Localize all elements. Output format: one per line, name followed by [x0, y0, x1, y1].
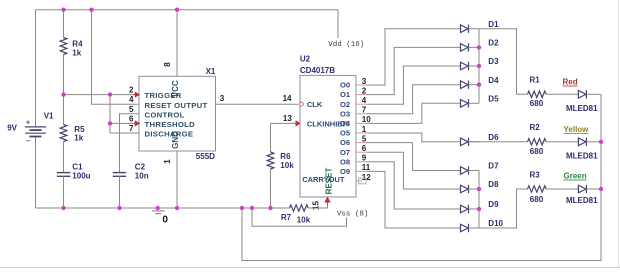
wire O5 to diode D6	[367, 133, 461, 142]
red input arrow pin13	[295, 121, 300, 126]
svg-text:D10: D10	[488, 219, 503, 228]
wire CLKINHIBIT pin13 row	[271, 122, 296, 124]
wire LED yellow to right bus	[587, 141, 601, 143]
ground symbol node 0	[152, 211, 165, 214]
svg-text:O4: O4	[340, 119, 351, 128]
pin 2 stub (O1)	[356, 94, 367, 96]
wire D10 cathode to bus	[469, 227, 480, 229]
svg-text:O3: O3	[340, 109, 350, 118]
svg-text:C2: C2	[135, 162, 146, 171]
svg-text:7: 7	[362, 106, 367, 115]
wire 555 pin7 row	[110, 132, 139, 134]
pin 11 stub (O9)	[356, 170, 367, 172]
svg-text:7: 7	[129, 124, 134, 133]
wire right return bus	[242, 94, 601, 260]
svg-text:D8: D8	[488, 180, 499, 189]
svg-text:MLED81: MLED81	[566, 196, 598, 205]
svg-text:2: 2	[129, 86, 134, 95]
wire 555 OUT pin3 to CD4017 CLK pin14	[216, 103, 299, 105]
svg-text:D2: D2	[488, 39, 499, 48]
svg-text:C1: C1	[72, 162, 83, 171]
wire O4 to diode D5	[367, 103, 461, 123]
svg-text:4: 4	[129, 95, 134, 104]
CLK pin open circle	[300, 102, 304, 106]
svg-text:O5: O5	[340, 129, 350, 138]
svg-text:Yellow: Yellow	[564, 125, 590, 134]
op 555 IC X1 box	[139, 76, 216, 151]
diode D10	[461, 224, 469, 232]
wire O9 to diode D10	[367, 171, 461, 228]
svg-text:680: 680	[530, 99, 544, 108]
svg-text:15: 15	[312, 201, 321, 210]
wire 555 VCC pin8 from rail	[176, 10, 178, 77]
diode D5	[461, 100, 469, 108]
resistor R7	[290, 205, 309, 211]
wire D9 cathode to bus	[469, 208, 480, 210]
pin 15 riser from ground rail	[327, 204, 329, 208]
wire R1 to LED	[546, 93, 578, 95]
wire ground rail	[36, 207, 290, 209]
svg-text:11: 11	[362, 163, 371, 172]
svg-text:9: 9	[362, 154, 367, 163]
wire Vdd drop to CD4017	[337, 10, 339, 38]
svg-text:6: 6	[362, 144, 367, 153]
wire O6 to diode D7	[367, 143, 461, 171]
battery V1	[25, 10, 46, 208]
wire D4 cathode to bus	[469, 84, 480, 86]
svg-text:R2: R2	[530, 123, 541, 132]
svg-text:Green: Green	[564, 172, 587, 181]
IC U2 CD4017B box	[300, 75, 356, 197]
wire D7 cathode to bus	[469, 170, 480, 172]
svg-text:5: 5	[362, 134, 367, 143]
svg-text:10k: 10k	[280, 161, 294, 170]
svg-text:8: 8	[163, 62, 172, 67]
svg-text:100u: 100u	[72, 172, 90, 181]
wire trigger/threshold link verticale	[109, 95, 111, 133]
red input arrow pin2	[134, 92, 140, 97]
junction dot yellow return	[599, 140, 603, 144]
svg-text:2: 2	[362, 86, 367, 95]
pin 7 stub (O3)	[356, 113, 367, 115]
junction dot R4/R5/pin2	[61, 92, 65, 96]
resistor R4	[60, 10, 67, 95]
svg-text:5: 5	[129, 105, 134, 114]
svg-text:555D: 555D	[196, 152, 215, 161]
pin 12 stub (CARRYOUT)	[356, 180, 362, 182]
svg-text:R3: R3	[530, 170, 541, 179]
resistor R5	[60, 95, 67, 173]
diode D2	[461, 44, 469, 52]
svg-text:1k: 1k	[74, 133, 83, 142]
pin 1 stub (O5)	[356, 132, 367, 134]
svg-text:Vss (8): Vss (8)	[337, 211, 369, 219]
svg-text:R6: R6	[280, 152, 291, 161]
svg-text:D1: D1	[488, 20, 499, 29]
svg-text:RESET: RESET	[325, 168, 334, 195]
svg-text:13: 13	[283, 114, 292, 123]
resistor R6	[267, 123, 274, 208]
wire top power rail	[36, 9, 339, 11]
window bottom border	[0, 267, 620, 269]
LED MLED81 red	[578, 91, 586, 99]
svg-text:O6: O6	[340, 138, 350, 147]
resistor R2	[528, 139, 547, 145]
wire bus D1 to R1	[479, 29, 528, 95]
wire 555 GND pin1 to ground rail	[176, 151, 178, 208]
diode D6	[461, 138, 469, 146]
svg-text:14: 14	[283, 94, 292, 103]
svg-text:O8: O8	[340, 157, 350, 166]
pin 9 stub (O8)	[356, 161, 367, 163]
wire 555 pin5 row to C2	[120, 114, 140, 172]
svg-text:D9: D9	[488, 200, 499, 209]
wire D8 cathode to bus	[469, 188, 480, 190]
capacitor C1	[57, 173, 71, 208]
diode D1	[461, 25, 469, 33]
svg-text:R4: R4	[72, 40, 83, 49]
wire bottom cathode bus D7-D10	[478, 171, 480, 229]
svg-text:VCC: VCC	[171, 80, 180, 97]
svg-text:CARRYOUT: CARRYOUT	[302, 175, 345, 184]
svg-text:MLED81: MLED81	[566, 151, 598, 160]
junction dot trigger link top	[108, 92, 112, 96]
wire R2 to LED	[546, 141, 578, 143]
svg-text:DISCHARGE: DISCHARGE	[145, 130, 194, 139]
pin 3 stub (O0)	[356, 84, 367, 86]
svg-text:9V: 9V	[7, 124, 17, 133]
diode D9	[461, 205, 469, 213]
svg-text:O2: O2	[340, 100, 350, 109]
svg-text:X1: X1	[206, 67, 216, 76]
wire D6 row to R2	[469, 141, 528, 143]
svg-text:6: 6	[129, 114, 134, 123]
pin 5 stub (O6)	[356, 142, 367, 144]
capacitor C2	[113, 173, 127, 208]
svg-text:O0: O0	[340, 81, 350, 90]
pin 10 stub (O4)	[356, 122, 367, 124]
wire LED red to right bus	[587, 93, 601, 95]
svg-text:D5: D5	[488, 94, 499, 103]
svg-text:R7: R7	[281, 213, 292, 222]
wire D3 cathode to bus	[469, 65, 480, 67]
svg-text:RESET OUTPUT: RESET OUTPUT	[145, 101, 208, 110]
pin 6 stub (O7)	[356, 151, 367, 153]
wire O8 to diode D9	[367, 162, 461, 209]
CARRYOUT open terminal square	[359, 178, 367, 184]
wire O3 to diode D4	[367, 85, 461, 114]
wire R3 to LED	[546, 188, 578, 190]
svg-text:THRESHOLD: THRESHOLD	[145, 120, 196, 129]
wire top cathode bus D1-D5	[478, 29, 480, 104]
svg-text:D6: D6	[488, 133, 499, 142]
diode D7	[461, 167, 469, 175]
junction dots bottom bus	[477, 187, 481, 191]
wire 555 pin6 row	[110, 122, 139, 124]
wire R7 to pin15	[308, 207, 327, 209]
svg-text:680: 680	[530, 195, 544, 204]
svg-text:Red: Red	[563, 78, 578, 87]
svg-text:D7: D7	[488, 162, 499, 171]
svg-text:3: 3	[362, 77, 367, 86]
svg-text:1: 1	[163, 159, 172, 164]
junction dot pin6 branch	[108, 121, 112, 125]
wire O0 to diode D1	[367, 29, 461, 85]
diode D4	[461, 81, 469, 89]
wire bus D10 to R3	[479, 189, 528, 228]
resistor R3	[528, 186, 547, 192]
diode D3	[461, 62, 469, 70]
red input arrow pin15	[325, 197, 330, 204]
wire D1 cathode to bus	[469, 28, 480, 30]
svg-text:CD4017B: CD4017B	[300, 66, 335, 75]
wire Vss branch	[252, 208, 347, 226]
svg-text:CONTROL: CONTROL	[145, 110, 185, 119]
junction dots ground rail	[61, 206, 65, 210]
svg-text:Vdd (16): Vdd (16)	[328, 41, 364, 49]
svg-text:12: 12	[362, 173, 371, 182]
svg-text:10n: 10n	[135, 172, 149, 181]
svg-text:680: 680	[530, 147, 544, 156]
svg-text:10k: 10k	[297, 216, 311, 225]
wire LED green to right bus	[587, 188, 601, 190]
svg-text:GND: GND	[171, 131, 180, 149]
LED MLED81 green	[578, 185, 586, 193]
diode D8	[461, 185, 469, 193]
wire D2 cathode to bus	[469, 46, 480, 48]
junction dots top bus	[477, 45, 481, 49]
wire D6 cathode to bus	[469, 141, 480, 143]
junction dot green return	[599, 187, 603, 191]
svg-text:D4: D4	[488, 76, 499, 85]
svg-text:V1: V1	[44, 112, 54, 121]
svg-text:U2: U2	[300, 54, 311, 63]
svg-text:CLK: CLK	[307, 100, 323, 109]
svg-text:R1: R1	[530, 76, 541, 85]
svg-text:O1: O1	[340, 90, 350, 99]
wire O7 to diode D8	[367, 152, 461, 189]
svg-text:O9: O9	[340, 167, 350, 176]
svg-text:D3: D3	[488, 57, 499, 66]
wire O2 to diode D3	[367, 66, 461, 104]
wire O1 to diode D2	[367, 47, 461, 94]
svg-text:O7: O7	[340, 148, 350, 157]
svg-text:10: 10	[362, 115, 371, 124]
pin 4 stub (O2)	[356, 103, 367, 105]
junction dots top rail	[61, 8, 65, 12]
svg-text:4: 4	[362, 96, 367, 105]
svg-text:0: 0	[162, 215, 168, 226]
resistor R1	[528, 91, 547, 97]
svg-text:3: 3	[220, 94, 225, 103]
svg-text:MLED81: MLED81	[566, 104, 598, 113]
svg-text:1k: 1k	[72, 49, 81, 58]
svg-text:1: 1	[362, 125, 367, 134]
red input arrow pin6	[134, 121, 140, 126]
LED MLED81 yellow	[578, 138, 586, 146]
wire pin4 riser from top rail	[92, 10, 140, 105]
wire D5 cathode to bus	[469, 102, 480, 104]
window right border	[617, 0, 619, 268]
wire 555 pin2 row from R4/R5 junction	[64, 94, 140, 96]
